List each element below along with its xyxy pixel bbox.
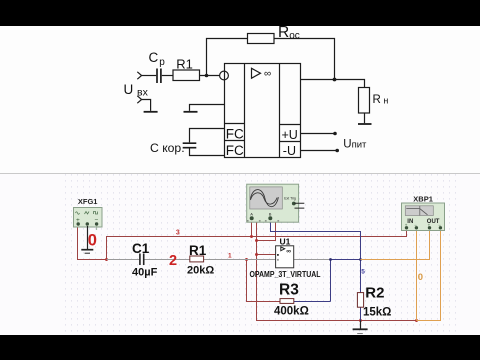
svg-text:C1: C1 (132, 241, 150, 256)
wire net3 red: XFG+ down, to C1 junction, up and across to XBP IN+ (78, 219, 417, 321)
XBP1 axis (419, 206, 421, 216)
XFG1 waveform icons (76, 212, 80, 215)
wire gray input row (107, 259, 331, 261)
svg-text:40µF: 40µF (132, 267, 158, 279)
XBP1 curve (406, 208, 427, 214)
svg-text:Ext Trig: Ext Trig (284, 196, 296, 200)
output wire (301, 80, 365, 88)
ext trig stubs (295, 203, 305, 208)
resistor R2 (357, 293, 363, 308)
op-amp U1 box (276, 246, 294, 268)
resistor Roc (248, 34, 275, 44)
ground from XFG1 (81, 226, 93, 253)
divider line (0, 173, 480, 175)
junction dot +input tee (255, 253, 258, 256)
svg-text:R2: R2 (365, 285, 384, 302)
wire OUT+ (361, 230, 430, 260)
svg-text:С кор.: С кор. (150, 141, 185, 155)
svg-text:∞: ∞ (286, 248, 291, 255)
svg-text:15kΩ: 15kΩ (363, 307, 391, 319)
ground main (353, 321, 368, 334)
svg-text:FC: FC (226, 143, 244, 158)
top black bar (0, 0, 480, 26)
svg-text:1: 1 (228, 253, 232, 260)
XFG1 body (74, 208, 103, 228)
resistor R1 bottom (190, 256, 204, 262)
wire orange XBP (361, 230, 441, 321)
wire C kor bottom (190, 149, 225, 156)
svg-text:OPAMP_3T_VIRTUAL: OPAMP_3T_VIRTUAL (250, 270, 321, 279)
svg-text:∞: ∞ (264, 69, 271, 80)
op-amp pin marks (277, 254, 279, 256)
wire input (142, 75, 157, 77)
ext trig terminal (292, 202, 296, 206)
XBP1 body (402, 203, 445, 231)
triangle amp symbol (252, 68, 261, 78)
svg-text:-U: -U (283, 144, 296, 158)
svg-text:XFG1: XFG1 (78, 197, 98, 206)
junction dot scope A (250, 235, 253, 238)
wire feedback loop (207, 39, 335, 80)
svg-text:R н: R н (373, 94, 389, 106)
junction dot R1 out (205, 74, 209, 78)
XFG1 terminals (77, 222, 80, 225)
scope sine wave big (250, 190, 278, 207)
wire -U (301, 150, 338, 152)
FC cell lines (225, 124, 245, 141)
capacitor C kor plates (183, 143, 197, 148)
wire scope A- B- hooks (254, 219, 276, 241)
wire R3 tap down (247, 260, 281, 302)
svg-text:2: 2 (169, 253, 177, 269)
svg-text:U1: U1 (280, 236, 291, 246)
wire navy output segment (271, 220, 361, 321)
XBP1 screen (405, 206, 433, 216)
junction dot output (333, 78, 337, 82)
svg-text:R1: R1 (189, 243, 207, 258)
node circle inverting input (220, 71, 229, 80)
svg-text:20kΩ: 20kΩ (187, 265, 214, 277)
capacitor C1 (140, 254, 144, 266)
+U -U cell lines (280, 125, 301, 142)
scope pin dashes (247, 220, 279, 222)
wire OUT- to ground (417, 230, 441, 321)
scope body (247, 184, 299, 222)
svg-text:FC: FC (226, 126, 244, 141)
svg-text:A: A (250, 212, 253, 217)
XBP1 bode plotter (402, 194, 445, 230)
scope terminal A (250, 216, 254, 220)
wire scope B+ (271, 220, 361, 260)
svg-text:B: B (269, 212, 272, 217)
svg-text:3: 3 (176, 230, 180, 237)
wire terminal2 to ground (142, 100, 151, 111)
capacitor Cp (157, 69, 161, 84)
svg-text:IN: IN (407, 219, 413, 225)
op-amp block U1 (225, 64, 301, 158)
wire R2 top lead (360, 260, 362, 293)
terminal dot -U (335, 149, 339, 153)
resistor R1 top (173, 70, 200, 81)
wire +input stub (257, 254, 276, 256)
svg-text:5: 5 (361, 268, 365, 275)
wire (162, 75, 173, 77)
junction dot output node (359, 258, 362, 261)
wire C kor top (190, 129, 225, 143)
input terminal 2 (137, 96, 141, 103)
junction dot ground XBP (415, 319, 418, 322)
resistor R3 (280, 299, 294, 304)
background white top area (0, 26, 480, 174)
ground bar terminal2 (144, 111, 158, 113)
wire scope A+ (251, 220, 253, 237)
svg-text:0: 0 (88, 231, 97, 249)
svg-text:+U: +U (282, 128, 298, 142)
svg-text:0: 0 (418, 272, 423, 283)
wire to op-amp (200, 75, 220, 77)
input terminal Uvx (137, 72, 141, 79)
oscilloscope XSC1 (247, 184, 305, 222)
junction dot B- tee (255, 239, 258, 242)
scope sine wave small (250, 193, 277, 204)
bottom black bar (0, 335, 480, 360)
junction dot net3 C1 (105, 258, 108, 261)
scope terminal B (268, 216, 272, 220)
wire +U (301, 133, 336, 135)
svg-text:XBP1: XBP1 (413, 194, 433, 203)
resistor Rn (359, 88, 370, 114)
junction dot R3 right (329, 258, 332, 261)
wire R2 bottom lead (360, 307, 362, 320)
scope screen (250, 187, 282, 209)
wire R3 right vertical (294, 260, 331, 302)
bottom schematic background (0, 174, 480, 335)
terminal dot +U (333, 132, 337, 136)
XFG1 function generator (74, 197, 103, 230)
junction dot R3 tap (245, 258, 248, 261)
wire Rn to ground (364, 113, 366, 123)
ground bar Rn (358, 123, 372, 125)
op-amp triangle icon (281, 247, 285, 251)
junction dot ground R2 (359, 319, 362, 322)
XBP1 terminals (405, 226, 408, 229)
svg-text:400kΩ: 400kΩ (274, 306, 309, 318)
svg-text:Uпит: Uпит (343, 139, 367, 151)
ground stub noninverting input (190, 105, 225, 111)
wire noninverting input to ground (257, 241, 417, 321)
wire IN- to ground (416, 230, 418, 321)
svg-text:R1: R1 (176, 57, 193, 72)
svg-text:R3: R3 (279, 281, 299, 298)
